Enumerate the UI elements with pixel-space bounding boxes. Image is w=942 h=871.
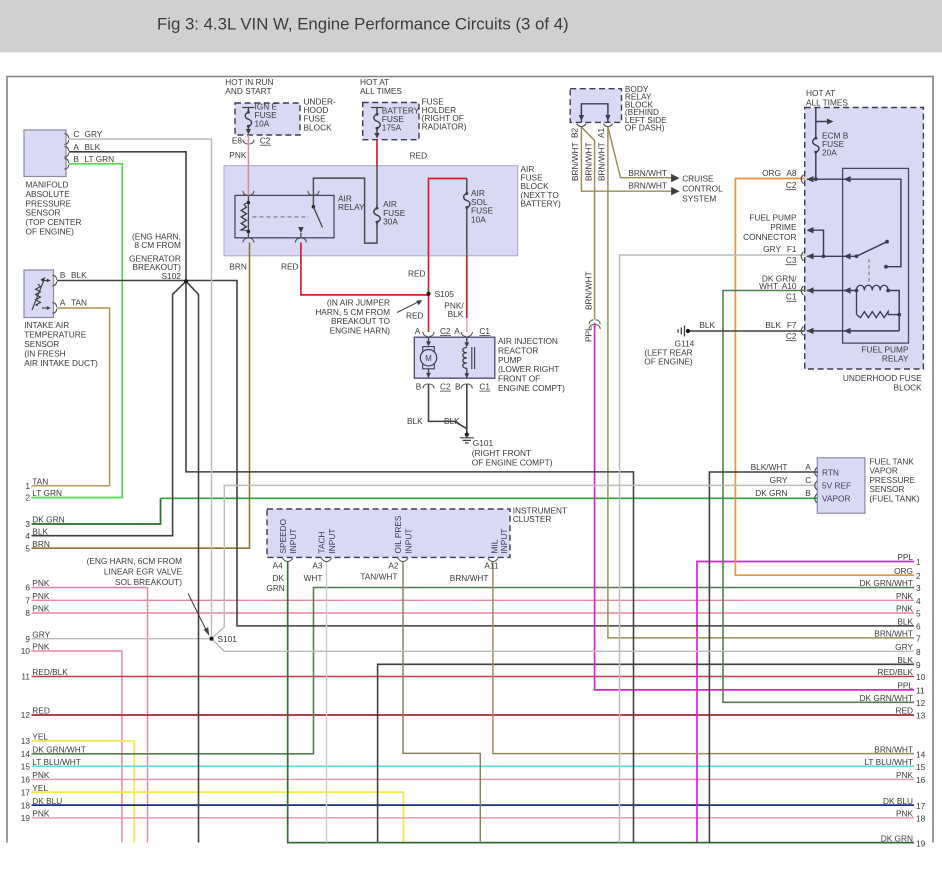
svg-text:A: A	[73, 142, 79, 152]
svg-text:S105: S105	[435, 289, 455, 299]
svg-text:5: 5	[25, 543, 30, 553]
svg-text:UNDERHOOD FUSE: UNDERHOOD FUSE	[843, 373, 922, 383]
svg-text:14: 14	[916, 749, 926, 759]
svg-text:(ENG HARN, 6CM FROM: (ENG HARN, 6CM FROM	[87, 556, 183, 566]
svg-text:A4: A4	[273, 561, 284, 571]
svg-text:BRN: BRN	[32, 539, 50, 549]
svg-text:C2: C2	[786, 331, 797, 341]
svg-text:RED: RED	[895, 706, 913, 716]
svg-text:G101: G101	[473, 438, 494, 448]
svg-text:TEMPERATURE: TEMPERATURE	[24, 329, 87, 339]
svg-text:B: B	[73, 154, 79, 164]
svg-text:ORG: ORG	[762, 168, 781, 178]
svg-text:6: 6	[916, 622, 921, 632]
svg-text:9: 9	[916, 660, 921, 670]
svg-text:20A: 20A	[822, 148, 837, 158]
svg-text:A: A	[60, 298, 66, 308]
svg-text:BLK: BLK	[444, 416, 460, 426]
svg-text:PNK: PNK	[896, 809, 914, 819]
svg-text:PNK: PNK	[32, 642, 50, 652]
svg-text:DK GRN: DK GRN	[32, 515, 64, 525]
svg-text:B: B	[416, 381, 422, 391]
svg-text:17: 17	[916, 801, 926, 811]
svg-text:LT GRN: LT GRN	[85, 154, 115, 164]
svg-text:ENGINE COMPT): ENGINE COMPT)	[498, 383, 565, 393]
svg-text:15: 15	[916, 762, 926, 772]
svg-text:M: M	[425, 354, 432, 363]
svg-text:SOL BREAKOUT): SOL BREAKOUT)	[115, 577, 182, 587]
svg-text:C1: C1	[479, 326, 490, 336]
svg-text:15: 15	[21, 762, 31, 772]
svg-text:BRN/WHT: BRN/WHT	[450, 573, 489, 583]
svg-text:B: B	[805, 488, 811, 498]
svg-text:CONTROL: CONTROL	[682, 184, 723, 194]
svg-text:ENGINE HARN): ENGINE HARN)	[330, 325, 391, 335]
svg-text:A8: A8	[786, 168, 797, 178]
svg-text:LT GRN: LT GRN	[32, 488, 62, 498]
svg-text:TAN/WHT: TAN/WHT	[360, 572, 397, 582]
svg-text:PPL: PPL	[897, 552, 913, 562]
svg-text:19: 19	[21, 813, 31, 823]
svg-text:BLK/WHT: BLK/WHT	[751, 462, 788, 472]
svg-text:13: 13	[916, 711, 926, 721]
svg-text:8: 8	[916, 647, 921, 657]
svg-text:RELAY: RELAY	[882, 354, 909, 364]
svg-text:VAPOR: VAPOR	[822, 494, 850, 504]
svg-text:PNK: PNK	[896, 591, 914, 601]
svg-text:A11: A11	[484, 561, 499, 571]
svg-text:DK: DK	[272, 573, 284, 583]
svg-text:C2: C2	[260, 136, 271, 146]
svg-text:BLK: BLK	[32, 526, 48, 536]
svg-text:BRN/WHT: BRN/WHT	[570, 142, 580, 181]
svg-text:YEL: YEL	[32, 783, 48, 793]
svg-text:DK GRN/WHT: DK GRN/WHT	[860, 693, 913, 703]
svg-text:7: 7	[916, 634, 921, 644]
svg-text:F7: F7	[787, 320, 797, 330]
svg-text:ORG: ORG	[894, 566, 913, 576]
svg-text:DK BLU: DK BLU	[32, 796, 62, 806]
svg-text:C2: C2	[786, 180, 797, 190]
svg-text:10A: 10A	[471, 214, 486, 224]
svg-text:TACH: TACH	[317, 532, 327, 554]
svg-text:7: 7	[25, 596, 30, 606]
svg-text:BRN/WHT: BRN/WHT	[874, 744, 913, 754]
svg-text:BLK: BLK	[71, 270, 87, 280]
svg-text:AIR INTAKE DUCT): AIR INTAKE DUCT)	[24, 358, 98, 368]
svg-text:RED: RED	[281, 262, 299, 272]
svg-text:INTAKE AIR: INTAKE AIR	[24, 320, 69, 330]
svg-text:YEL: YEL	[32, 732, 48, 742]
svg-text:CLUSTER: CLUSTER	[513, 514, 552, 524]
svg-text:16: 16	[21, 775, 31, 785]
svg-text:PNK: PNK	[32, 770, 50, 780]
svg-text:RED: RED	[406, 311, 424, 321]
svg-text:PPL: PPL	[583, 326, 593, 342]
svg-text:S101: S101	[218, 634, 238, 644]
svg-text:C3: C3	[786, 255, 797, 265]
svg-text:BLK: BLK	[448, 309, 464, 319]
svg-text:5V REF: 5V REF	[822, 481, 851, 491]
svg-text:A3: A3	[312, 561, 323, 571]
svg-text:C2: C2	[440, 381, 451, 391]
svg-text:CRUISE: CRUISE	[682, 174, 714, 184]
svg-text:PNK: PNK	[32, 604, 50, 614]
svg-text:BLK: BLK	[407, 416, 423, 426]
svg-text:1: 1	[916, 557, 921, 567]
svg-text:4: 4	[25, 531, 30, 541]
svg-text:GRY: GRY	[895, 642, 913, 652]
svg-text:BRN/WHT: BRN/WHT	[628, 168, 667, 178]
svg-text:BLK: BLK	[897, 617, 913, 627]
svg-text:MIL: MIL	[489, 539, 499, 553]
svg-text:13: 13	[21, 736, 31, 746]
svg-text:(FUEL TANK): (FUEL TANK)	[869, 494, 919, 504]
svg-text:GRY: GRY	[763, 244, 781, 254]
svg-text:8 CM FROM: 8 CM FROM	[134, 240, 181, 250]
svg-text:RED/BLK: RED/BLK	[32, 667, 68, 677]
svg-text:(RIGHT FRONT: (RIGHT FRONT	[472, 448, 531, 458]
svg-text:BRN: BRN	[229, 262, 247, 272]
svg-text:GRN: GRN	[266, 583, 284, 593]
svg-text:8: 8	[25, 608, 30, 618]
svg-text:C2: C2	[440, 326, 451, 336]
svg-text:BRN/WHT: BRN/WHT	[597, 142, 607, 181]
svg-text:OF ENGINE): OF ENGINE)	[644, 357, 693, 367]
svg-text:A2: A2	[388, 561, 399, 571]
svg-text:OF ENGINE): OF ENGINE)	[26, 227, 75, 237]
svg-text:B: B	[455, 381, 461, 391]
svg-text:4: 4	[916, 596, 921, 606]
svg-text:DK BLU: DK BLU	[883, 796, 913, 806]
svg-text:PPL: PPL	[897, 681, 913, 691]
svg-text:C1: C1	[786, 292, 797, 302]
svg-text:TAN: TAN	[32, 477, 48, 487]
svg-text:9: 9	[25, 634, 30, 644]
svg-text:RTN: RTN	[822, 468, 839, 478]
svg-text:RED: RED	[408, 269, 426, 279]
svg-text:10: 10	[21, 646, 31, 656]
svg-text:12: 12	[21, 710, 31, 720]
svg-text:2: 2	[916, 571, 921, 581]
svg-text:RELAY: RELAY	[338, 202, 365, 212]
svg-text:BATTERY): BATTERY)	[521, 198, 561, 208]
svg-text:10: 10	[916, 672, 926, 682]
svg-text:18: 18	[21, 800, 31, 810]
svg-text:BLOCK: BLOCK	[894, 383, 923, 393]
svg-text:RED: RED	[32, 706, 50, 716]
svg-text:FUEL PUMP: FUEL PUMP	[749, 212, 797, 222]
svg-text:19: 19	[916, 838, 926, 848]
svg-text:SYSTEM: SYSTEM	[682, 194, 716, 204]
svg-text:E8: E8	[232, 136, 243, 146]
svg-text:INPUT: INPUT	[403, 529, 413, 554]
svg-text:14: 14	[21, 749, 31, 759]
svg-text:INPUT: INPUT	[327, 529, 337, 554]
svg-text:5: 5	[916, 609, 921, 619]
svg-text:GRY: GRY	[770, 475, 788, 485]
svg-text:F1: F1	[787, 244, 797, 254]
svg-text:BLK: BLK	[897, 655, 913, 665]
svg-text:PNK: PNK	[32, 578, 50, 588]
svg-text:SENSOR: SENSOR	[24, 339, 59, 349]
svg-text:WHT: WHT	[759, 281, 778, 291]
svg-text:PNK: PNK	[896, 604, 914, 614]
svg-text:11: 11	[21, 672, 30, 682]
svg-text:TAN: TAN	[71, 298, 87, 308]
svg-text:RED: RED	[410, 151, 428, 161]
svg-text:ALL TIMES: ALL TIMES	[806, 97, 848, 107]
svg-text:BLK: BLK	[765, 320, 781, 330]
svg-text:A: A	[415, 326, 421, 336]
svg-text:PRIME: PRIME	[770, 222, 797, 232]
svg-text:PNK: PNK	[229, 150, 247, 160]
svg-text:BRN/WHT: BRN/WHT	[628, 181, 667, 191]
svg-text:Fig 3: 4.3L VIN W, Engine Perf: Fig 3: 4.3L VIN W, Engine Performance Ci…	[157, 15, 569, 34]
svg-text:B: B	[60, 270, 66, 280]
svg-text:OF DASH): OF DASH)	[625, 123, 665, 133]
svg-text:PNK: PNK	[32, 591, 50, 601]
svg-text:SPEEDO: SPEEDO	[278, 518, 288, 553]
svg-text:DK GRN: DK GRN	[755, 488, 787, 498]
svg-text:GRY: GRY	[85, 129, 103, 139]
svg-text:BRN/WHT: BRN/WHT	[583, 271, 593, 310]
svg-text:RED/BLK: RED/BLK	[877, 667, 913, 677]
svg-text:B2: B2	[570, 127, 580, 138]
svg-text:3: 3	[25, 519, 30, 529]
svg-text:PNK: PNK	[896, 770, 914, 780]
svg-text:(IN FRESH: (IN FRESH	[24, 348, 65, 358]
svg-text:S102: S102	[162, 271, 182, 281]
svg-text:A1: A1	[596, 127, 606, 138]
svg-text:30A: 30A	[383, 217, 398, 227]
svg-text:OIL PRES: OIL PRES	[393, 515, 403, 553]
svg-text:BRN/WHT: BRN/WHT	[583, 142, 593, 181]
svg-text:BLK: BLK	[699, 320, 715, 330]
svg-text:A10: A10	[782, 281, 797, 291]
svg-text:DK GRN: DK GRN	[881, 833, 913, 843]
svg-text:18: 18	[916, 814, 926, 824]
svg-text:C: C	[73, 129, 79, 139]
svg-text:CONNECTOR: CONNECTOR	[743, 232, 796, 242]
svg-text:A: A	[454, 326, 460, 336]
svg-text:BLOCK: BLOCK	[304, 122, 333, 132]
svg-text:C1: C1	[479, 381, 490, 391]
svg-text:DK GRN/WHT: DK GRN/WHT	[860, 578, 913, 588]
svg-text:16: 16	[916, 775, 926, 785]
svg-text:PNK: PNK	[32, 809, 50, 819]
svg-text:6: 6	[25, 583, 30, 593]
svg-text:11: 11	[916, 686, 925, 696]
svg-text:17: 17	[21, 787, 31, 797]
svg-text:BLK: BLK	[85, 142, 101, 152]
svg-text:1: 1	[25, 481, 30, 491]
svg-text:LT BLU/WHT: LT BLU/WHT	[864, 757, 913, 767]
svg-text:DK GRN/WHT: DK GRN/WHT	[32, 745, 85, 755]
svg-text:BRN/WHT: BRN/WHT	[874, 629, 913, 639]
svg-text:INPUT: INPUT	[288, 529, 298, 554]
svg-text:175A: 175A	[382, 123, 402, 133]
svg-text:INPUT: INPUT	[499, 529, 509, 554]
svg-text:A: A	[805, 462, 811, 472]
svg-text:OF ENGINE COMPT): OF ENGINE COMPT)	[472, 458, 553, 468]
svg-text:LINEAR EGR VALVE: LINEAR EGR VALVE	[104, 566, 183, 576]
svg-text:RADIATOR): RADIATOR)	[422, 121, 467, 131]
svg-text:WHT: WHT	[304, 573, 323, 583]
svg-text:GRY: GRY	[32, 629, 50, 639]
svg-text:12: 12	[916, 698, 926, 708]
svg-text:3: 3	[916, 583, 921, 593]
svg-text:LT BLU/WHT: LT BLU/WHT	[32, 757, 81, 767]
svg-text:C: C	[805, 475, 811, 485]
svg-text:2: 2	[25, 493, 30, 503]
svg-text:ALL TIMES: ALL TIMES	[360, 86, 402, 96]
svg-text:10A: 10A	[255, 119, 270, 129]
svg-text:AND START: AND START	[225, 86, 271, 96]
